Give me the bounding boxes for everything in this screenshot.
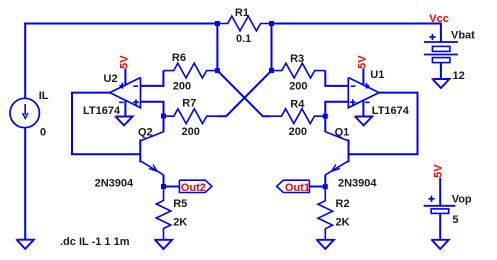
svg-text:2N3904: 2N3904 [338,177,377,189]
resistor R6 [163,63,217,78]
wire Vop negative to ground [439,213,441,240]
junction node B (R1/R3/cross) [269,68,274,73]
net flag Out2 outline [179,180,211,192]
battery Vop [424,205,456,207]
svg-text:5V: 5V [357,55,369,69]
svg-text:Out1: Out1 [285,182,310,194]
svg-text:LT1674: LT1674 [83,105,121,117]
wire top rail left segment [24,23,217,25]
svg-text:R5: R5 [173,198,187,210]
wire Q1 collector to node [324,116,326,132]
wire U1 output to Q1 base [349,93,418,155]
svg-text:5V: 5V [119,55,131,69]
svg-text:U2: U2 [104,73,118,85]
svg-text:2N3904: 2N3904 [95,177,134,189]
svg-text:R2: R2 [336,198,350,210]
resistor R3 [272,63,326,78]
op-amp U1 [348,78,379,108]
resistor R2 [318,187,333,240]
wire Q1 emitter to Out1 node [324,175,326,187]
wire 5V flag to Vop positive [439,178,441,206]
junction node R1 left [215,21,220,26]
wire top rail to Vbat positive [440,23,442,43]
net flag Out1 outline [277,180,310,192]
wire Vbat negative to ground [440,63,442,79]
wire cross-couple node B to R7 [217,71,271,117]
ground at Vbat [432,79,449,88]
svg-text:Vcc: Vcc [429,13,449,25]
ground at R5 [155,240,172,249]
svg-text:200: 200 [173,81,191,93]
battery Vbat [424,41,458,43]
transistor Q2 [139,139,141,162]
svg-text:200: 200 [289,80,307,92]
ground at U2 V- pin [115,117,132,126]
svg-text:2K: 2K [336,217,350,229]
ground at current source IL [17,240,34,249]
resistor R7 [164,109,218,124]
svg-text:R7: R7 [182,98,196,110]
wire current source to ground [24,127,26,240]
svg-text:R3: R3 [290,53,304,65]
junction node R1 right [269,21,274,26]
wire Q2 emitter to Out2 node [163,175,165,187]
ground at Vop [432,240,449,249]
svg-text:R6: R6 [172,52,186,64]
wire R3 right end to U1 inverting input [325,71,349,86]
svg-text:LT1674: LT1674 [372,105,410,117]
wire Out2 node to flag [164,186,180,188]
ground at R2 [317,240,334,249]
svg-text:Out2: Out2 [181,182,206,194]
wire Q2 collector to node [163,116,165,132]
svg-text:Q1: Q1 [335,126,350,138]
svg-text:R1: R1 [235,7,249,19]
svg-text:R4: R4 [290,99,305,111]
junction node A (R1/R6/cross) [215,68,220,73]
svg-text:12: 12 [453,70,465,82]
svg-text:U1: U1 [370,69,384,81]
resistor R4 [271,109,325,124]
svg-text:200: 200 [182,126,200,138]
wire U2 non-inverting input to collector node [140,102,164,116]
wire U1 non-inverting input to collector node [325,102,349,116]
svg-text:IL: IL [39,90,49,102]
op-amp U2 [110,78,141,108]
svg-text:0: 0 [40,127,46,139]
wire Out1 flag to node [309,186,325,188]
svg-text:Q2: Q2 [138,126,153,138]
current source IL [10,98,39,127]
wire left drop to current source [24,23,26,100]
wire node R1-left down to node A [216,24,218,71]
svg-text:5: 5 [452,214,458,226]
svg-text:Vop: Vop [452,193,472,205]
wire R6 left end to U2 inverting input [140,71,163,86]
svg-text:2K: 2K [173,217,187,229]
svg-text:0.1: 0.1 [236,33,251,45]
junction node Q1 collector / R4 [323,114,328,119]
junction node Out2 [161,184,166,189]
junction node Out1 [323,184,328,189]
junction node Q2 collector / R7 [161,114,166,119]
svg-text:Vbat: Vbat [451,30,475,42]
ground at U1 V- pin [355,117,372,126]
resistor R1 [217,16,271,31]
svg-text:5V: 5V [433,164,445,178]
resistor R5 [156,187,171,240]
transistor Q1 [348,139,350,162]
wire cross-couple node A to R4 [217,71,271,117]
wire top rail right segment [272,23,441,25]
wire U2 output to Q2 base [72,93,140,155]
wire node R1-right down to node B [271,24,273,71]
svg-text:.dc IL -1 1 1m: .dc IL -1 1 1m [60,236,130,248]
svg-text:200: 200 [289,126,307,138]
